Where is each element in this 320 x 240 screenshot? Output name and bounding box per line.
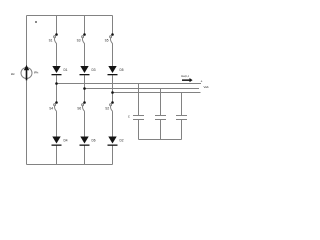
svg-text:D4: D4 xyxy=(64,138,68,142)
svg-text:D3: D3 xyxy=(92,68,96,72)
svg-text:Idc: Idc xyxy=(11,72,16,76)
svg-text:IPh: IPh xyxy=(34,70,39,74)
svg-text:Ioa,b,c: Ioa,b,c xyxy=(181,74,190,78)
svg-text:Vab: Vab xyxy=(204,85,209,89)
svg-text:D2: D2 xyxy=(120,138,124,142)
svg-text:S3: S3 xyxy=(77,38,81,42)
svg-text:D6: D6 xyxy=(92,138,96,142)
svg-text:S4: S4 xyxy=(49,107,53,111)
svg-text:S6: S6 xyxy=(77,107,81,111)
svg-text:S2: S2 xyxy=(105,107,109,111)
svg-text:+: + xyxy=(201,80,203,84)
svg-text:D5: D5 xyxy=(120,68,124,72)
svg-text:D1: D1 xyxy=(64,68,68,72)
svg-text:S5: S5 xyxy=(105,38,109,42)
svg-text:c: c xyxy=(128,115,130,119)
svg-text:S1: S1 xyxy=(49,38,53,42)
